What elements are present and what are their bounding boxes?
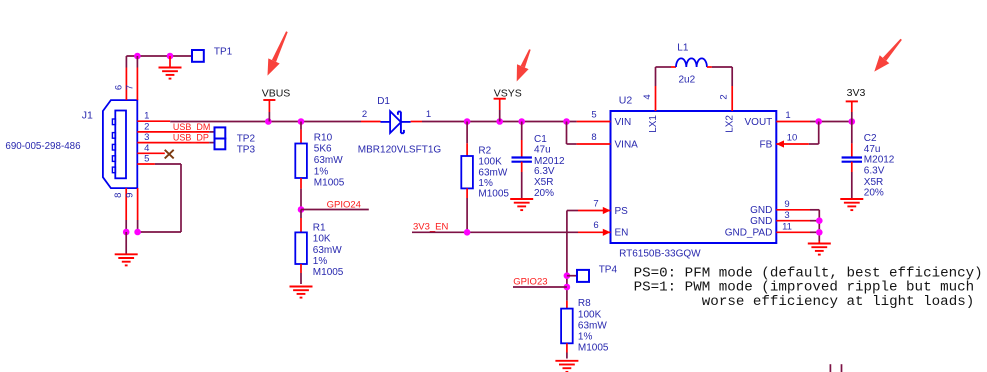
svg-text:VSYS: VSYS (494, 87, 522, 99)
power port VSYS (494, 87, 522, 121)
junction 3V3 (849, 118, 856, 125)
svg-text:M1005: M1005 (313, 267, 344, 278)
svg-text:100K: 100K (478, 156, 502, 167)
svg-text:X5R: X5R (864, 177, 883, 188)
pin 9 of J1 (125, 188, 138, 232)
pin 2 of D1 (361, 109, 381, 122)
svg-text:1%: 1% (478, 178, 493, 189)
svg-text:GND_PAD: GND_PAD (725, 228, 773, 239)
svg-text:FB: FB (760, 139, 773, 150)
svg-text:6.3V: 6.3V (534, 166, 555, 177)
pin 1 VOUT (745, 110, 852, 128)
svg-text:C1: C1 (534, 134, 547, 145)
junction FB tap (815, 118, 822, 125)
label J1 (82, 110, 93, 122)
wire R10 to GPIO24 (300, 122, 302, 210)
svg-text:VBUS: VBUS (262, 88, 291, 100)
svg-text:R1: R1 (313, 223, 326, 234)
svg-text:3: 3 (144, 132, 149, 143)
ground under J1 (115, 232, 138, 265)
junction R10 top (298, 118, 305, 125)
resistor R2 (461, 122, 509, 233)
svg-text:1%: 1% (313, 256, 328, 267)
svg-text:VOUT: VOUT (745, 117, 773, 128)
ground under U2 (808, 241, 831, 255)
svg-text:6: 6 (113, 85, 124, 90)
diode D1 symbol (381, 111, 411, 133)
svg-text:M1005: M1005 (578, 343, 609, 354)
junction usb gnd B (134, 229, 141, 236)
svg-text:5: 5 (144, 154, 149, 165)
svg-text:VINA: VINA (615, 139, 639, 150)
svg-text:J1: J1 (82, 110, 93, 122)
junction TP4 tap (564, 272, 571, 279)
net label GPIO24 (301, 199, 369, 210)
svg-text:MBR120VLSFT1G: MBR120VLSFT1G (358, 145, 442, 156)
svg-text:PS: PS (615, 206, 629, 217)
junction 3V3_EN (464, 229, 471, 236)
annotation arrow 1 (268, 31, 288, 75)
svg-text:TP1: TP1 (214, 46, 233, 57)
svg-text:690-005-298-486: 690-005-298-486 (5, 141, 81, 152)
resistor R8 (561, 298, 609, 358)
svg-text:63mW: 63mW (313, 245, 342, 256)
connector J1 body (103, 100, 137, 188)
annotation arrow 2 (517, 49, 531, 81)
junction GND pin3 (816, 217, 823, 224)
ground under C2 (840, 199, 863, 210)
resistor R10 (295, 130, 345, 189)
resistor R1 (295, 210, 344, 285)
svg-text:6.3V: 6.3V (864, 166, 885, 177)
pin 4 LX1 (642, 67, 659, 133)
svg-text:4: 4 (144, 143, 149, 154)
svg-text:X5R: X5R (534, 177, 553, 188)
svg-text:63mW: 63mW (314, 155, 343, 166)
junction R2 top (464, 118, 471, 125)
testpoint TP3 (215, 139, 256, 156)
svg-text:20%: 20% (534, 188, 554, 199)
svg-text:USB_DP: USB_DP (173, 132, 209, 142)
net label USB_DM (173, 122, 211, 132)
pin 5 of J1 (137, 154, 155, 165)
junction GPIO24 (298, 206, 305, 213)
junction pin7/top (134, 53, 141, 60)
svg-text:1: 1 (144, 111, 149, 122)
junction usb gnd A (123, 229, 130, 236)
svg-text:9: 9 (784, 199, 789, 210)
junction GPIO23 (564, 284, 571, 291)
svg-text:1: 1 (785, 110, 790, 121)
pin 4 of J1 no-connect (137, 143, 173, 159)
wire D1 to VSYS bus (422, 121, 577, 123)
pin 6 EN (578, 220, 628, 239)
svg-text:2: 2 (362, 109, 367, 120)
testpoint TP4 (567, 264, 618, 282)
pin 9 GND (750, 199, 819, 216)
ground under R8 (555, 361, 578, 372)
svg-text:GPIO23: GPIO23 (513, 277, 547, 288)
value 690-005-298-486 (5, 141, 81, 152)
wire cropped A (829, 364, 831, 372)
power port 3V3 (846, 87, 866, 121)
net label GPIO23 (513, 277, 567, 288)
pin 1 of D1 (411, 109, 432, 122)
svg-text:10: 10 (787, 132, 798, 143)
svg-text:M2012: M2012 (864, 155, 895, 166)
svg-text:TP2: TP2 (237, 134, 256, 145)
pin 5 VIN (577, 110, 632, 128)
annotation arrow 3 (874, 39, 902, 72)
capacitor C2 (842, 122, 895, 200)
pin 11 GND_PAD (725, 222, 820, 239)
svg-text:USB_DM: USB_DM (173, 122, 211, 132)
svg-text:3: 3 (784, 210, 789, 221)
svg-text:U2: U2 (619, 95, 633, 107)
svg-text:1: 1 (426, 109, 431, 120)
svg-text:L1: L1 (677, 43, 689, 54)
svg-text:7: 7 (593, 198, 598, 209)
svg-text:11: 11 (782, 222, 792, 233)
svg-text:D1: D1 (377, 96, 390, 107)
svg-text:LX1: LX1 (648, 115, 659, 133)
svg-text:C2: C2 (864, 133, 877, 144)
pin 3 GND (750, 210, 819, 227)
svg-text:worse efficiency at light load: worse efficiency at light loads) (702, 294, 974, 310)
svg-text:2u2: 2u2 (679, 75, 696, 86)
svg-text:2: 2 (719, 94, 730, 99)
junction VSYS (496, 118, 503, 125)
pin 8 VINA (567, 122, 639, 151)
svg-text:20%: 20% (864, 188, 884, 199)
testpoint TP2 (215, 127, 256, 144)
svg-text:5K6: 5K6 (314, 144, 332, 155)
svg-text:1%: 1% (578, 332, 593, 343)
wire pin1 to D1 (170, 121, 361, 123)
testpoint TP1 (192, 46, 233, 62)
op-amp U2 box (611, 111, 777, 243)
value MBR120VLSFT1G (358, 145, 442, 156)
svg-text:M1005: M1005 (314, 178, 345, 189)
ground under R1 (290, 287, 313, 298)
junction VINA branch (563, 118, 570, 125)
svg-text:EN: EN (615, 228, 629, 239)
svg-text:7: 7 (124, 85, 135, 90)
net label USB_DP (173, 132, 209, 142)
capacitor C1 (512, 122, 566, 200)
junction C1 top (518, 118, 525, 125)
svg-text:6: 6 (593, 220, 598, 231)
pin 7 of J1 (124, 56, 137, 100)
svg-text:R10: R10 (314, 132, 333, 143)
power port VBUS (262, 88, 291, 122)
svg-text:47u: 47u (864, 144, 881, 155)
pin 10 FB (760, 122, 819, 151)
ground under top wire (159, 56, 182, 79)
junction VBUS (265, 118, 272, 125)
svg-text:100K: 100K (578, 309, 602, 320)
svg-text:1%: 1% (314, 166, 329, 177)
label U2 (619, 95, 633, 107)
net 3V3_EN wire (412, 231, 578, 233)
svg-text:63mW: 63mW (578, 320, 607, 331)
svg-text:5: 5 (591, 110, 596, 121)
pin 2 of J1 (137, 121, 214, 132)
svg-text:3V3: 3V3 (847, 87, 866, 99)
net label 3V3_EN (413, 221, 449, 232)
svg-text:GND: GND (750, 216, 772, 227)
pin 8 of J1 (113, 188, 126, 232)
svg-text:GND: GND (750, 205, 772, 216)
pin 1 of J1 (137, 111, 170, 122)
svg-text:4: 4 (642, 94, 653, 99)
label D1 (377, 96, 390, 107)
wire GND bus (818, 210, 820, 241)
wire top net to TP1 (126, 55, 192, 57)
svg-text:10K: 10K (313, 234, 331, 245)
svg-text:9: 9 (125, 193, 136, 198)
svg-text:TP3: TP3 (237, 144, 256, 155)
wire PS vertical (567, 211, 578, 301)
pin 6 of J1 (113, 56, 126, 100)
junction gnd/top (167, 53, 174, 60)
wire cropped B (841, 364, 843, 372)
svg-text:8: 8 (113, 193, 124, 198)
svg-text:3V3_EN: 3V3_EN (413, 221, 449, 232)
svg-text:LX2: LX2 (725, 115, 736, 133)
pin 2 LX2 (719, 67, 736, 133)
pin 3 of J1 (137, 132, 214, 143)
ground under C1 (510, 199, 533, 210)
svg-text:RT6150B-33GQW: RT6150B-33GQW (619, 248, 701, 259)
value RT6150B-33GQW (619, 248, 701, 259)
svg-text:VIN: VIN (615, 117, 632, 128)
inductor L1 (656, 43, 733, 86)
svg-text:8: 8 (591, 132, 596, 143)
svg-text:R2: R2 (478, 146, 491, 157)
svg-text:TP4: TP4 (599, 264, 618, 275)
svg-text:63mW: 63mW (478, 168, 507, 179)
svg-text:M1005: M1005 (478, 189, 509, 200)
svg-text:R8: R8 (578, 298, 591, 309)
svg-text:47u: 47u (534, 145, 551, 156)
note PS modes (634, 266, 983, 310)
svg-text:2: 2 (144, 121, 149, 132)
junction GND pin11 (816, 229, 823, 236)
wire pin5 to ground (138, 164, 181, 232)
pin 7 PS (578, 198, 628, 217)
